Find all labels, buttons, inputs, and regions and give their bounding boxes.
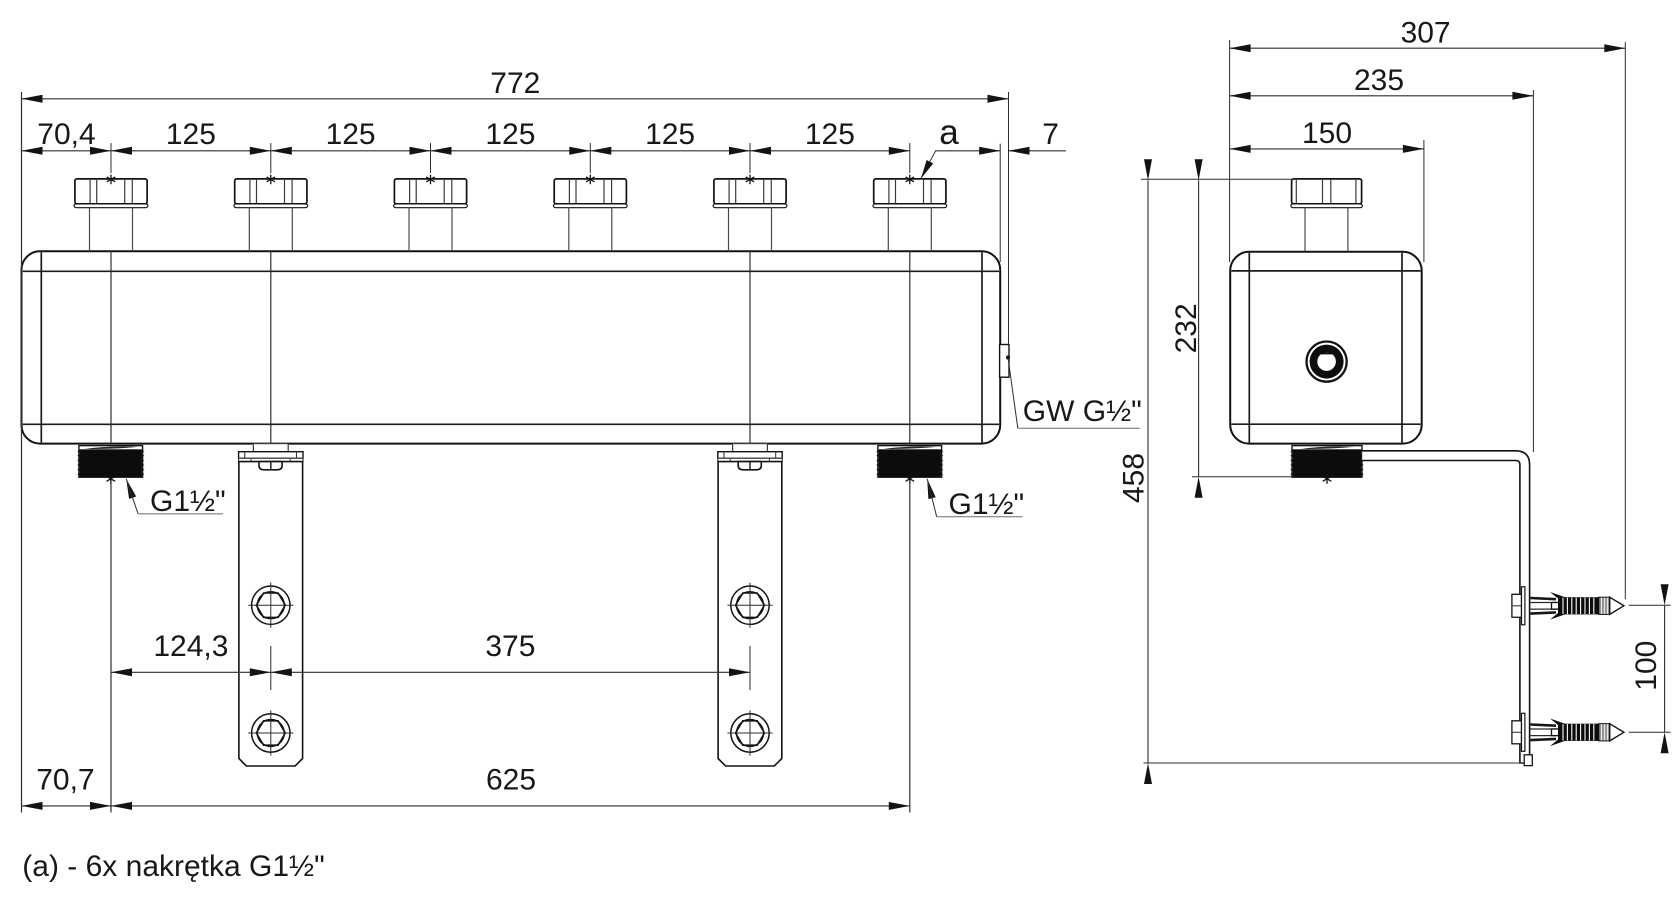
svg-text:232: 232 <box>1170 303 1203 353</box>
svg-text:70,7: 70,7 <box>36 763 94 796</box>
svg-text:100: 100 <box>1630 641 1663 691</box>
svg-text:G1½": G1½" <box>949 488 1025 521</box>
svg-text:125: 125 <box>805 118 855 151</box>
svg-text:375: 375 <box>485 630 535 663</box>
svg-text:125: 125 <box>645 118 695 151</box>
svg-text:125: 125 <box>166 118 216 151</box>
svg-text:125: 125 <box>485 118 535 151</box>
svg-text:G1½": G1½" <box>150 485 226 518</box>
svg-text:458: 458 <box>1118 453 1151 503</box>
svg-text:307: 307 <box>1401 16 1451 49</box>
svg-text:a: a <box>939 113 959 152</box>
svg-text:124,3: 124,3 <box>153 630 228 663</box>
svg-text:772: 772 <box>490 67 540 100</box>
svg-text:70,4: 70,4 <box>37 118 95 151</box>
svg-text:150: 150 <box>1302 117 1352 150</box>
svg-text:125: 125 <box>326 118 376 151</box>
svg-text:GW G½": GW G½" <box>1023 395 1142 428</box>
svg-text:625: 625 <box>486 763 536 796</box>
svg-text:(a) - 6x nakrętka G1½": (a) - 6x nakrętka G1½" <box>22 850 324 883</box>
svg-text:7: 7 <box>1042 118 1059 151</box>
svg-text:235: 235 <box>1354 64 1404 97</box>
